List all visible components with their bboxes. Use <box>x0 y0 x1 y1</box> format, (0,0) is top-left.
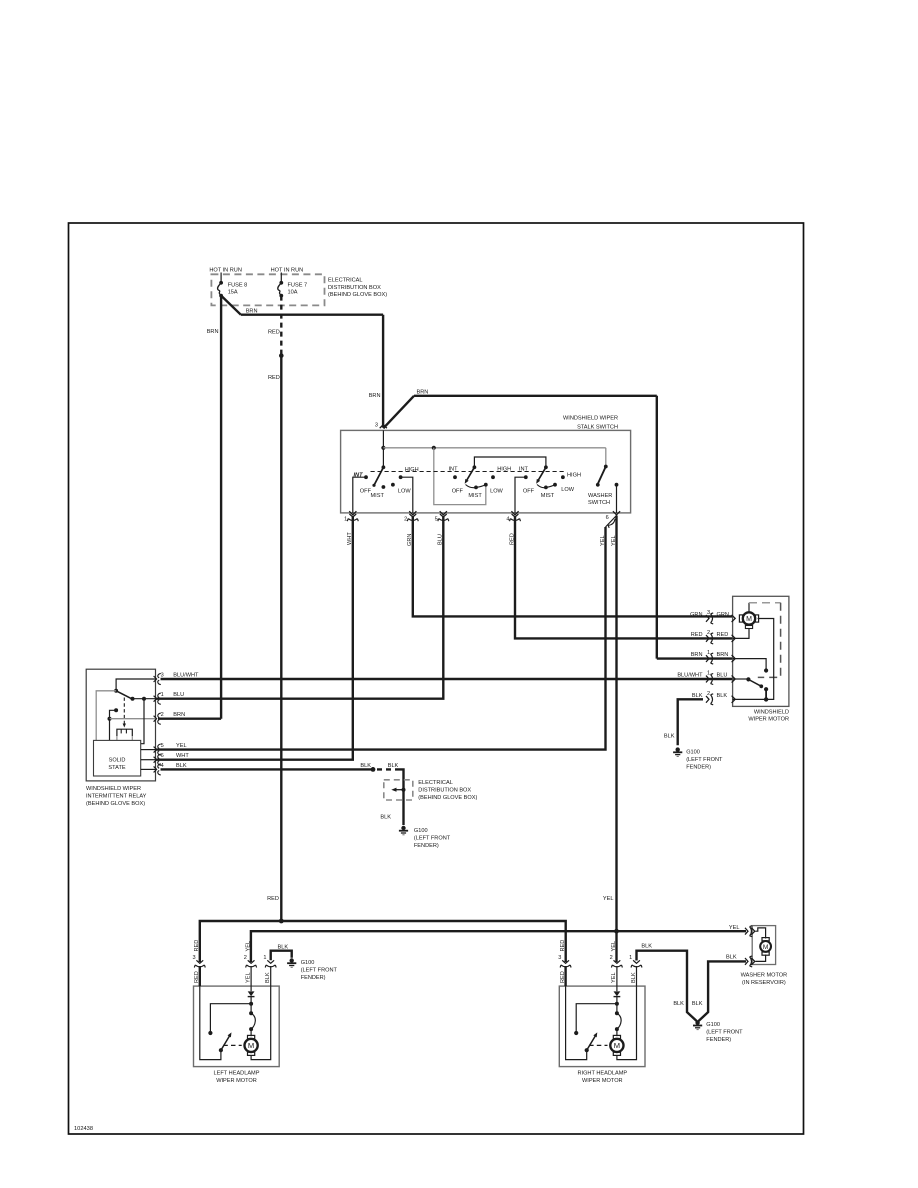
svg-text:MIST: MIST <box>468 493 482 499</box>
svg-text:BLU: BLU <box>717 673 728 679</box>
group 1 labels INT OFF MIST LOW HIGH <box>354 467 419 499</box>
svg-text:FENDER): FENDER) <box>706 1037 731 1043</box>
relay coil terminal stub with dot <box>110 710 117 718</box>
washer motor internal feed wire <box>756 928 766 939</box>
wire WHT label <box>347 532 353 545</box>
svg-text:BRN: BRN <box>207 329 219 335</box>
wiper motor pin 3 arrow and connector <box>732 615 736 622</box>
right motor junction dots on YEL chain <box>615 1002 619 1006</box>
right motor M symbol <box>610 1035 623 1055</box>
switch group 2 lever with arrow <box>466 467 475 482</box>
svg-text:1: 1 <box>707 650 710 656</box>
wiper motor M symbol <box>739 612 758 624</box>
wiper motor pin number 3 <box>707 610 710 616</box>
svg-text:1: 1 <box>344 517 347 523</box>
svg-text:WIPER MOTOR: WIPER MOTOR <box>748 717 789 723</box>
wire BLU label <box>438 534 444 545</box>
wiper motor pin number 2 <box>707 630 710 636</box>
wiper motor pin number 1 <box>707 671 710 677</box>
svg-text:2: 2 <box>707 630 710 636</box>
washer switch riser <box>605 448 607 466</box>
svg-text:(IN RESERVOIR): (IN RESERVOIR) <box>742 980 786 986</box>
wire label YEL (washer) <box>729 925 740 931</box>
relay wire label BLU <box>173 692 184 698</box>
switch group 3 pivot <box>544 465 548 469</box>
label WASHER MOTOR (IN RESERVOIR) <box>741 972 788 986</box>
svg-text:RED: RED <box>268 330 280 336</box>
left headlamp wiper motor box <box>194 986 280 1067</box>
wiper motor pin 2 arrow and connector <box>732 635 736 642</box>
right motor pin 3 wire into box <box>564 966 566 986</box>
relay wire label BRN <box>173 712 185 718</box>
svg-text:FENDER): FENDER) <box>686 764 711 770</box>
svg-text:ELECTRICAL: ELECTRICAL <box>418 780 453 786</box>
windshield wiper stalk switch box <box>341 430 631 513</box>
wire label BLK <box>692 693 703 699</box>
stalk switch pin 3 entry arrow <box>380 425 387 429</box>
park switch contact link <box>765 689 767 699</box>
svg-text:MIST: MIST <box>541 493 555 499</box>
wire RED: stalk pin 4 down then right to wiper motor pin 2 <box>515 517 733 638</box>
svg-text:HOT IN RUN: HOT IN RUN <box>271 268 304 274</box>
svg-text:BLU: BLU <box>173 692 184 698</box>
right motor switch lever with arrow <box>587 1035 596 1051</box>
stalk pin 5 exit arrow and connector <box>440 511 447 515</box>
label ELECTRICAL DISTRIBUTION BOX (BEHIND GLOVE BOX) <box>328 278 387 298</box>
svg-text:LOW: LOW <box>398 489 411 495</box>
svg-text:WIPER MOTOR: WIPER MOTOR <box>582 1078 623 1084</box>
svg-text:BLK: BLK <box>692 693 703 699</box>
wire label RED <box>268 375 280 381</box>
wire BLU/WHT: relay pin 3 to wiper motor pin 1 <box>161 678 734 680</box>
relay wire label YEL <box>176 743 187 749</box>
svg-text:RED: RED <box>717 632 729 638</box>
washer switch contact <box>615 483 619 487</box>
wire label BLK <box>641 944 652 950</box>
svg-text:YEL: YEL <box>611 972 617 983</box>
group 3 wiping arc curve <box>537 485 555 488</box>
wire label BRN <box>717 652 729 658</box>
svg-text:1: 1 <box>707 671 710 677</box>
wire YEL: stalk pin 6 left branch down to relay pin 5 <box>156 527 606 750</box>
right motor wire into M <box>616 1029 618 1036</box>
wire label YEL (bottom) <box>603 896 614 902</box>
svg-text:RED: RED <box>268 375 280 381</box>
svg-text:SOLID: SOLID <box>109 758 126 764</box>
stalk pin 1 exit arrow and connector <box>349 511 356 515</box>
svg-text:OFF: OFF <box>523 489 535 495</box>
svg-text:HIGH: HIGH <box>405 467 419 473</box>
svg-text:GRN: GRN <box>690 612 702 618</box>
relay wire label WHT <box>176 753 189 759</box>
svg-text:STATE: STATE <box>108 765 125 771</box>
svg-text:RED: RED <box>691 632 703 638</box>
park switch pivot <box>746 677 750 681</box>
wire YEL junction dot <box>614 929 619 934</box>
wire label BRN <box>417 389 429 395</box>
svg-text:M: M <box>248 1041 254 1050</box>
wire BRN horizontal to stalk feed <box>241 314 383 316</box>
wire BRN diagonal from fuse 8 <box>221 296 241 315</box>
group 1 LOW contact <box>391 483 395 487</box>
wire YEL label (left) <box>600 535 606 546</box>
pin number 4 <box>506 517 509 523</box>
wire label GRN <box>717 612 729 618</box>
svg-text:FUSE 7: FUSE 7 <box>288 282 308 288</box>
solid state pin 6 wire <box>141 759 156 761</box>
washer motor pin YEL arrow and connector <box>751 928 755 935</box>
svg-text:BLK: BLK <box>380 815 391 821</box>
pin number 2 <box>404 517 407 523</box>
switch group 3 lever with arrow <box>537 467 546 482</box>
right motor pin 1 connector <box>631 960 642 967</box>
switch group 2 pivot <box>473 465 477 469</box>
relay pin 3 internal wire <box>116 679 155 691</box>
svg-text:INT: INT <box>519 466 529 472</box>
relay wire label BLU/WHT <box>173 673 199 679</box>
label SOLID STATE <box>108 758 125 771</box>
svg-text:RED: RED <box>194 940 200 952</box>
group 3 labels INT OFF MIST LOW HIGH <box>519 466 581 499</box>
left motor switch fixed contact and riser <box>208 1031 212 1035</box>
svg-text:LOW: LOW <box>561 487 574 493</box>
wire fuse 7 top stub <box>280 273 282 283</box>
svg-text:OFF: OFF <box>452 489 464 495</box>
right motor switch pivot <box>585 1048 589 1052</box>
wire label BRN <box>691 652 703 658</box>
svg-text:2: 2 <box>707 691 710 697</box>
svg-text:INT: INT <box>449 466 459 472</box>
right motor pin 1 wire into box <box>636 966 638 986</box>
pin 6 connector (rotated on split) <box>607 519 617 528</box>
mechanical dashed link from motor to park switch <box>749 602 781 604</box>
wire BLK: right motor pin 1 to ground <box>637 951 697 1022</box>
svg-text:G100: G100 <box>706 1022 720 1028</box>
electrical distribution box 1 (dashed, behind glove box) <box>211 274 324 305</box>
svg-text:BLK: BLK <box>360 763 371 769</box>
wire label RED <box>691 632 703 638</box>
svg-text:1: 1 <box>161 692 164 698</box>
wiper motor pin 2 internal wire (to bottom brush) <box>733 629 749 639</box>
rail linking switch group 2 and 3 pivots <box>474 457 546 467</box>
svg-text:YEL: YEL <box>245 941 251 952</box>
svg-text:BLK: BLK <box>673 1001 684 1007</box>
park switch lever contact dots <box>759 684 763 688</box>
left motor pin 1 connector <box>265 960 276 967</box>
svg-text:RIGHT HEADLAMP: RIGHT HEADLAMP <box>577 1070 627 1076</box>
svg-text:2: 2 <box>161 712 164 718</box>
stalk pin 6 exit arrow <box>613 511 620 515</box>
svg-text:3: 3 <box>707 610 710 616</box>
label HOT IN RUN (fuse 7) <box>271 268 304 274</box>
svg-text:HIGH: HIGH <box>497 466 511 472</box>
svg-text:BRN: BRN <box>417 389 429 395</box>
svg-text:5: 5 <box>435 517 438 523</box>
wire GRN: stalk pin 2 down then right to wiper motor pin 3 <box>413 517 733 616</box>
right motor pin 2 connector <box>611 960 622 967</box>
svg-text:HIGH: HIGH <box>567 473 581 479</box>
group 1 HIGH contact <box>399 475 403 479</box>
label WINDSHIELD WIPER MOTOR <box>748 709 789 722</box>
left motor wire into M <box>250 1029 252 1036</box>
svg-text:WASHER: WASHER <box>588 493 612 499</box>
svg-text:G100: G100 <box>686 749 700 755</box>
svg-text:6: 6 <box>161 753 164 759</box>
wire YEL: stalk pin 6 right branch down to bottom junction <box>615 516 617 932</box>
right motor diode <box>614 991 621 996</box>
svg-text:5: 5 <box>161 743 164 749</box>
left motor thermal curve <box>251 1013 255 1029</box>
svg-text:WINDSHIELD WIPER: WINDSHIELD WIPER <box>563 416 618 422</box>
internal take-off arrow in distribution box <box>391 788 405 792</box>
svg-text:YEL: YEL <box>176 743 187 749</box>
svg-text:BRN: BRN <box>369 393 381 399</box>
washer switch lever <box>598 467 606 485</box>
left motor diode <box>248 991 255 996</box>
wire label BLU <box>717 673 728 679</box>
relay pin 2 junction dot <box>108 717 112 721</box>
svg-text:2: 2 <box>404 517 407 523</box>
right headlamp wiper motor box <box>559 986 645 1067</box>
group 2 low-feed gray path <box>434 448 486 505</box>
splice junction on RED wire <box>279 353 284 358</box>
left motor pin 2 connector <box>246 960 257 967</box>
pin number 3 <box>375 422 378 428</box>
wire label BLK <box>380 815 391 821</box>
switch group 1 pivot <box>382 465 386 469</box>
svg-text:RED: RED <box>560 940 566 952</box>
svg-text:BLK: BLK <box>631 972 637 983</box>
left motor BLK internal wire <box>251 986 271 1060</box>
electrical distribution box 2 (dashed) <box>384 780 413 800</box>
wire BLU: stalk pin 5 down to relay pin 1 <box>156 517 444 699</box>
wire label BRN <box>207 329 219 335</box>
relay switch pivot <box>114 689 118 693</box>
svg-text:(LEFT FRONT: (LEFT FRONT <box>686 757 723 763</box>
svg-text:6: 6 <box>606 515 609 521</box>
wire YEL split diagonal <box>606 516 617 528</box>
svg-text:DISTRIBUTION BOX: DISTRIBUTION BOX <box>328 285 381 291</box>
relay pin 2 internal gray wire <box>110 718 156 720</box>
relay pin number 1 <box>161 692 164 698</box>
svg-text:FENDER): FENDER) <box>414 843 439 849</box>
stalk pin 2 exit arrow and connector <box>409 511 416 515</box>
wire label BLK <box>388 763 399 769</box>
svg-text:HOT IN RUN: HOT IN RUN <box>209 268 242 274</box>
label ELECTRICAL DISTRIBUTION BOX (BEHIND GLOVE BOX) <box>418 780 477 801</box>
svg-text:(LEFT FRONT: (LEFT FRONT <box>301 968 338 974</box>
svg-text:ELECTRICAL: ELECTRICAL <box>328 278 363 284</box>
solid state module box <box>94 740 141 776</box>
wire label RED <box>268 330 280 336</box>
svg-text:DISTRIBUTION BOX: DISTRIBUTION BOX <box>418 788 471 794</box>
svg-text:3: 3 <box>375 422 378 428</box>
relay pin number 4 <box>161 763 164 769</box>
pin number 6 <box>606 515 609 521</box>
washer motor internal ground wire <box>756 955 766 962</box>
wire label BLK (washer) <box>726 955 737 961</box>
windshield wiper motor box <box>733 596 789 706</box>
group 2 labels INT OFF MIST LOW HIGH <box>449 466 512 499</box>
label G100 (LEFT FRONT FENDER) <box>414 828 451 849</box>
svg-text:1: 1 <box>629 955 632 961</box>
group 1 INT contact <box>364 475 368 479</box>
relay pin number 6 <box>161 753 164 759</box>
fuse F8 <box>218 281 223 298</box>
wire YEL down to right headlamp motor pin 2 <box>615 931 617 962</box>
right motor internal RED wire to switch pivot <box>566 986 587 1060</box>
svg-text:10A: 10A <box>288 290 298 296</box>
svg-text:YEL: YEL <box>729 925 740 931</box>
relay pin 5 arrow and connector <box>154 747 157 753</box>
label HOT IN RUN (fuse 8) <box>209 268 242 274</box>
left motor junction dots on YEL chain <box>249 1002 253 1006</box>
svg-text:WHT: WHT <box>176 753 189 759</box>
relay switch lever <box>116 691 131 699</box>
ground G100 (wiper motor) <box>673 747 682 756</box>
wire BRN horizontal to wiper motor feed <box>414 395 657 397</box>
wire BRN vertical down to stalk switch pin 3 <box>382 315 384 428</box>
label RIGHT HEADLAMP WIPER MOTOR <box>577 1070 627 1084</box>
wire label BLK (left drop) <box>673 1001 684 1007</box>
label G100 (LEFT FRONT FENDER) <box>706 1022 743 1043</box>
left motor pin 2 wire into box <box>250 966 252 986</box>
wire label BLK <box>278 945 289 951</box>
windshield wiper intermittent relay box <box>86 669 155 781</box>
svg-text:4: 4 <box>161 763 164 769</box>
wire RED: long vertical down to red rail <box>280 356 282 921</box>
wire BLK corner down through distribution box <box>398 769 404 825</box>
wire BLK: washer motor to ground <box>698 961 746 1021</box>
relay lever end contact <box>131 697 135 701</box>
svg-text:BLK: BLK <box>726 955 737 961</box>
svg-text:BLK: BLK <box>176 763 187 769</box>
wire BLK: relay pin 4 to splice <box>161 768 374 770</box>
relay pin 1 arrow and connector <box>154 696 157 702</box>
group 1 HIGH contact wire to pin 2 <box>401 477 413 513</box>
relay pin 3 arrow and connector <box>154 676 157 682</box>
svg-text:SWITCH: SWITCH <box>588 500 610 506</box>
wire RED rail junction dot <box>279 919 284 924</box>
wire BRN into wiper motor pin 1 <box>657 657 733 659</box>
wire BRN: fuse 8 down to relay pin 2 <box>220 296 222 719</box>
svg-text:102438: 102438 <box>74 1126 93 1132</box>
group 3 HIGH contact <box>561 475 565 479</box>
svg-text:M: M <box>746 616 752 623</box>
junction dot on rail (group 2 drop) <box>432 446 436 450</box>
wire label RED <box>717 632 729 638</box>
relay wire down into solid state box <box>109 719 111 741</box>
right motor thermal curve <box>617 1013 621 1029</box>
svg-text:WINDSHIELD: WINDSHIELD <box>754 709 789 715</box>
svg-text:(BEHIND GLOVE BOX): (BEHIND GLOVE BOX) <box>418 795 477 801</box>
wiper motor internal wire from right brush down <box>758 619 774 700</box>
group 1 INT contact wire to pin 1 <box>353 477 366 513</box>
svg-text:GRN: GRN <box>717 612 729 618</box>
wiper motor pin 1 arrow and connector <box>732 655 736 662</box>
dashed INT line across switch groups <box>371 471 566 473</box>
page frame <box>69 223 804 1134</box>
plate number 102438 <box>74 1126 93 1132</box>
svg-text:FUSE 8: FUSE 8 <box>228 282 248 288</box>
wire RED label <box>509 533 515 545</box>
wire label BLK <box>717 693 728 699</box>
wire label BLK (right drop) <box>692 1001 703 1007</box>
ground G100 (left headlamp motor) <box>287 958 296 967</box>
svg-text:WINDSHIELD WIPER: WINDSHIELD WIPER <box>86 786 141 792</box>
label FUSE 8 15A <box>228 282 248 295</box>
svg-text:BLU/WHT: BLU/WHT <box>677 673 703 679</box>
washer motor M symbol <box>760 938 771 956</box>
svg-text:INTERMITTENT RELAY: INTERMITTENT RELAY <box>86 794 147 800</box>
washer motor pin BLK arrow and connector <box>751 958 755 965</box>
svg-text:15A: 15A <box>228 290 238 296</box>
switch group 1 lever (OFF position) <box>374 467 383 485</box>
svg-text:G100: G100 <box>301 960 315 966</box>
group 1 MIST contact <box>382 485 386 489</box>
relay wire from contact down to solid state <box>141 699 144 744</box>
wire BRN diagonal from pin 3 junction <box>383 396 414 429</box>
left motor M symbol <box>245 1035 258 1055</box>
wiper motor bottom tab <box>745 626 752 629</box>
svg-text:BRN: BRN <box>717 652 729 658</box>
svg-text:4: 4 <box>506 517 509 523</box>
wiper motor top wire <box>748 603 750 613</box>
right motor BLK internal wire <box>617 986 637 1060</box>
washer switch pivot <box>604 465 608 469</box>
relay pin number 3 <box>161 673 164 679</box>
solid state pin 5 wire <box>141 749 156 751</box>
svg-text:1: 1 <box>263 955 266 961</box>
wire label BLK <box>360 763 371 769</box>
relay contact junction <box>142 697 146 701</box>
junction dot on feed <box>381 446 385 450</box>
svg-text:WASHER MOTOR: WASHER MOTOR <box>741 972 788 978</box>
park switch bottom junction <box>764 697 768 701</box>
washer switch lower contact dot <box>596 483 600 487</box>
stalk feed wire inside box <box>382 430 384 467</box>
svg-text:BLU/WHT: BLU/WHT <box>173 673 199 679</box>
svg-text:2: 2 <box>610 955 613 961</box>
svg-text:BLK: BLK <box>388 763 399 769</box>
svg-text:WIPER MOTOR: WIPER MOTOR <box>216 1078 257 1084</box>
svg-text:FENDER): FENDER) <box>301 975 326 981</box>
fuse F7 <box>278 281 283 298</box>
relay pin 2 arrow and connector <box>154 716 157 722</box>
svg-text:RED: RED <box>267 896 279 902</box>
svg-text:MIST: MIST <box>371 493 385 499</box>
left motor pin 3 connector <box>194 960 205 967</box>
group 3 OFF/INT contact <box>524 475 528 479</box>
svg-text:(LEFT FRONT: (LEFT FRONT <box>706 1030 743 1036</box>
wire label BLU/WHT <box>677 673 703 679</box>
wire RED: fuse 7 dashed segment <box>280 296 282 356</box>
svg-text:STALK SWITCH: STALK SWITCH <box>577 424 618 430</box>
relay coil symbol <box>117 729 132 740</box>
svg-text:M: M <box>763 944 769 951</box>
label WINDSHIELD WIPER STALK SWITCH <box>563 416 618 431</box>
wire label RED (lower) <box>267 896 279 902</box>
relay pin 1 internal wire <box>133 698 156 700</box>
relay wire label BLK <box>176 763 187 769</box>
relay gray wire pivot to solid state <box>96 691 116 741</box>
group 3 contact wire to pin 4 <box>515 477 526 513</box>
label G100 (LEFT FRONT FENDER) <box>686 749 723 770</box>
svg-text:2: 2 <box>244 955 247 961</box>
svg-text:BLK: BLK <box>692 1001 703 1007</box>
relay coil dashed actuator line <box>123 698 125 726</box>
park switch upper contact <box>764 668 768 672</box>
